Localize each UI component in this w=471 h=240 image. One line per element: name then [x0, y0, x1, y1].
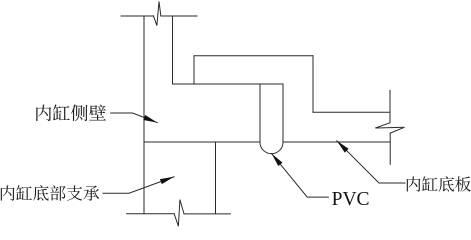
arrowhead pointing at side wall: [143, 115, 157, 123]
support rib vertical: [215, 142, 217, 214]
top slab top line (left part): [121, 15, 153, 17]
right break symbol: [375, 123, 404, 133]
bottom plate line (right of PVC pipe): [283, 141, 390, 143]
step left vertical: [193, 56, 195, 84]
bottom support line (left part): [127, 213, 175, 215]
bottom break symbol: [174, 200, 184, 227]
label: inner tank bottom plate 内缸底板: [407, 176, 471, 191]
PVC pipe left wall: [259, 84, 261, 142]
top slab top line (right part): [161, 15, 197, 17]
label: inner tank side wall 内缸侧壁: [36, 104, 106, 121]
arrowhead pointing at bottom support: [160, 177, 174, 184]
arrowhead pointing at PVC pipe bottom: [272, 154, 283, 167]
PVC pipe rounded bottom: [260, 142, 283, 154]
leader line for side wall label: [111, 113, 158, 123]
leader line for bottom support label: [103, 177, 174, 193]
bottom plate line (left of PVC pipe): [144, 141, 260, 143]
ledge horizontal at y84: [173, 83, 284, 85]
svg-text:PVC: PVC: [332, 189, 370, 210]
leader line for PVC label: [272, 154, 329, 198]
outer wall right vertical (lower part): [389, 133, 391, 164]
upper step horizontal: [194, 55, 313, 57]
top break symbol: [153, 2, 160, 26]
inner tank side wall outer face (left vertical): [143, 16, 145, 214]
right shelf horizontal: [313, 111, 390, 113]
inner tank side wall inner face (second vertical): [172, 16, 174, 84]
label: inner tank bottom support 内缸底部支承: [1, 185, 100, 201]
PVC pipe right wall: [282, 84, 284, 142]
step right vertical: [312, 56, 314, 112]
outer wall right vertical (upper part): [389, 90, 391, 122]
bottom support line (right part): [184, 213, 230, 215]
arrowhead pointing at bottom plate: [337, 141, 349, 153]
leader line for bottom plate label: [337, 141, 405, 183]
